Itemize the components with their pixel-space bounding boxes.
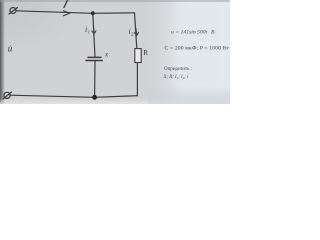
svg-text:Определить :: Определить :	[164, 67, 192, 72]
svg-text:u = 141sin 500t В: u = 141sin 500t В	[171, 30, 215, 36]
svg-text:u̇: u̇	[8, 44, 13, 54]
svg-text:i₁: i₁	[85, 25, 90, 34]
svg-text:X; R; I₁; I₂; i: X; R; I₁; I₂; i	[163, 75, 190, 80]
svg-text:C = 200 мкФ; P = 1000 Вт: C = 200 мкФ; P = 1000 Вт	[165, 46, 230, 52]
svg-text:i₂: i₂	[129, 27, 134, 36]
svg-text:R: R	[143, 49, 148, 57]
